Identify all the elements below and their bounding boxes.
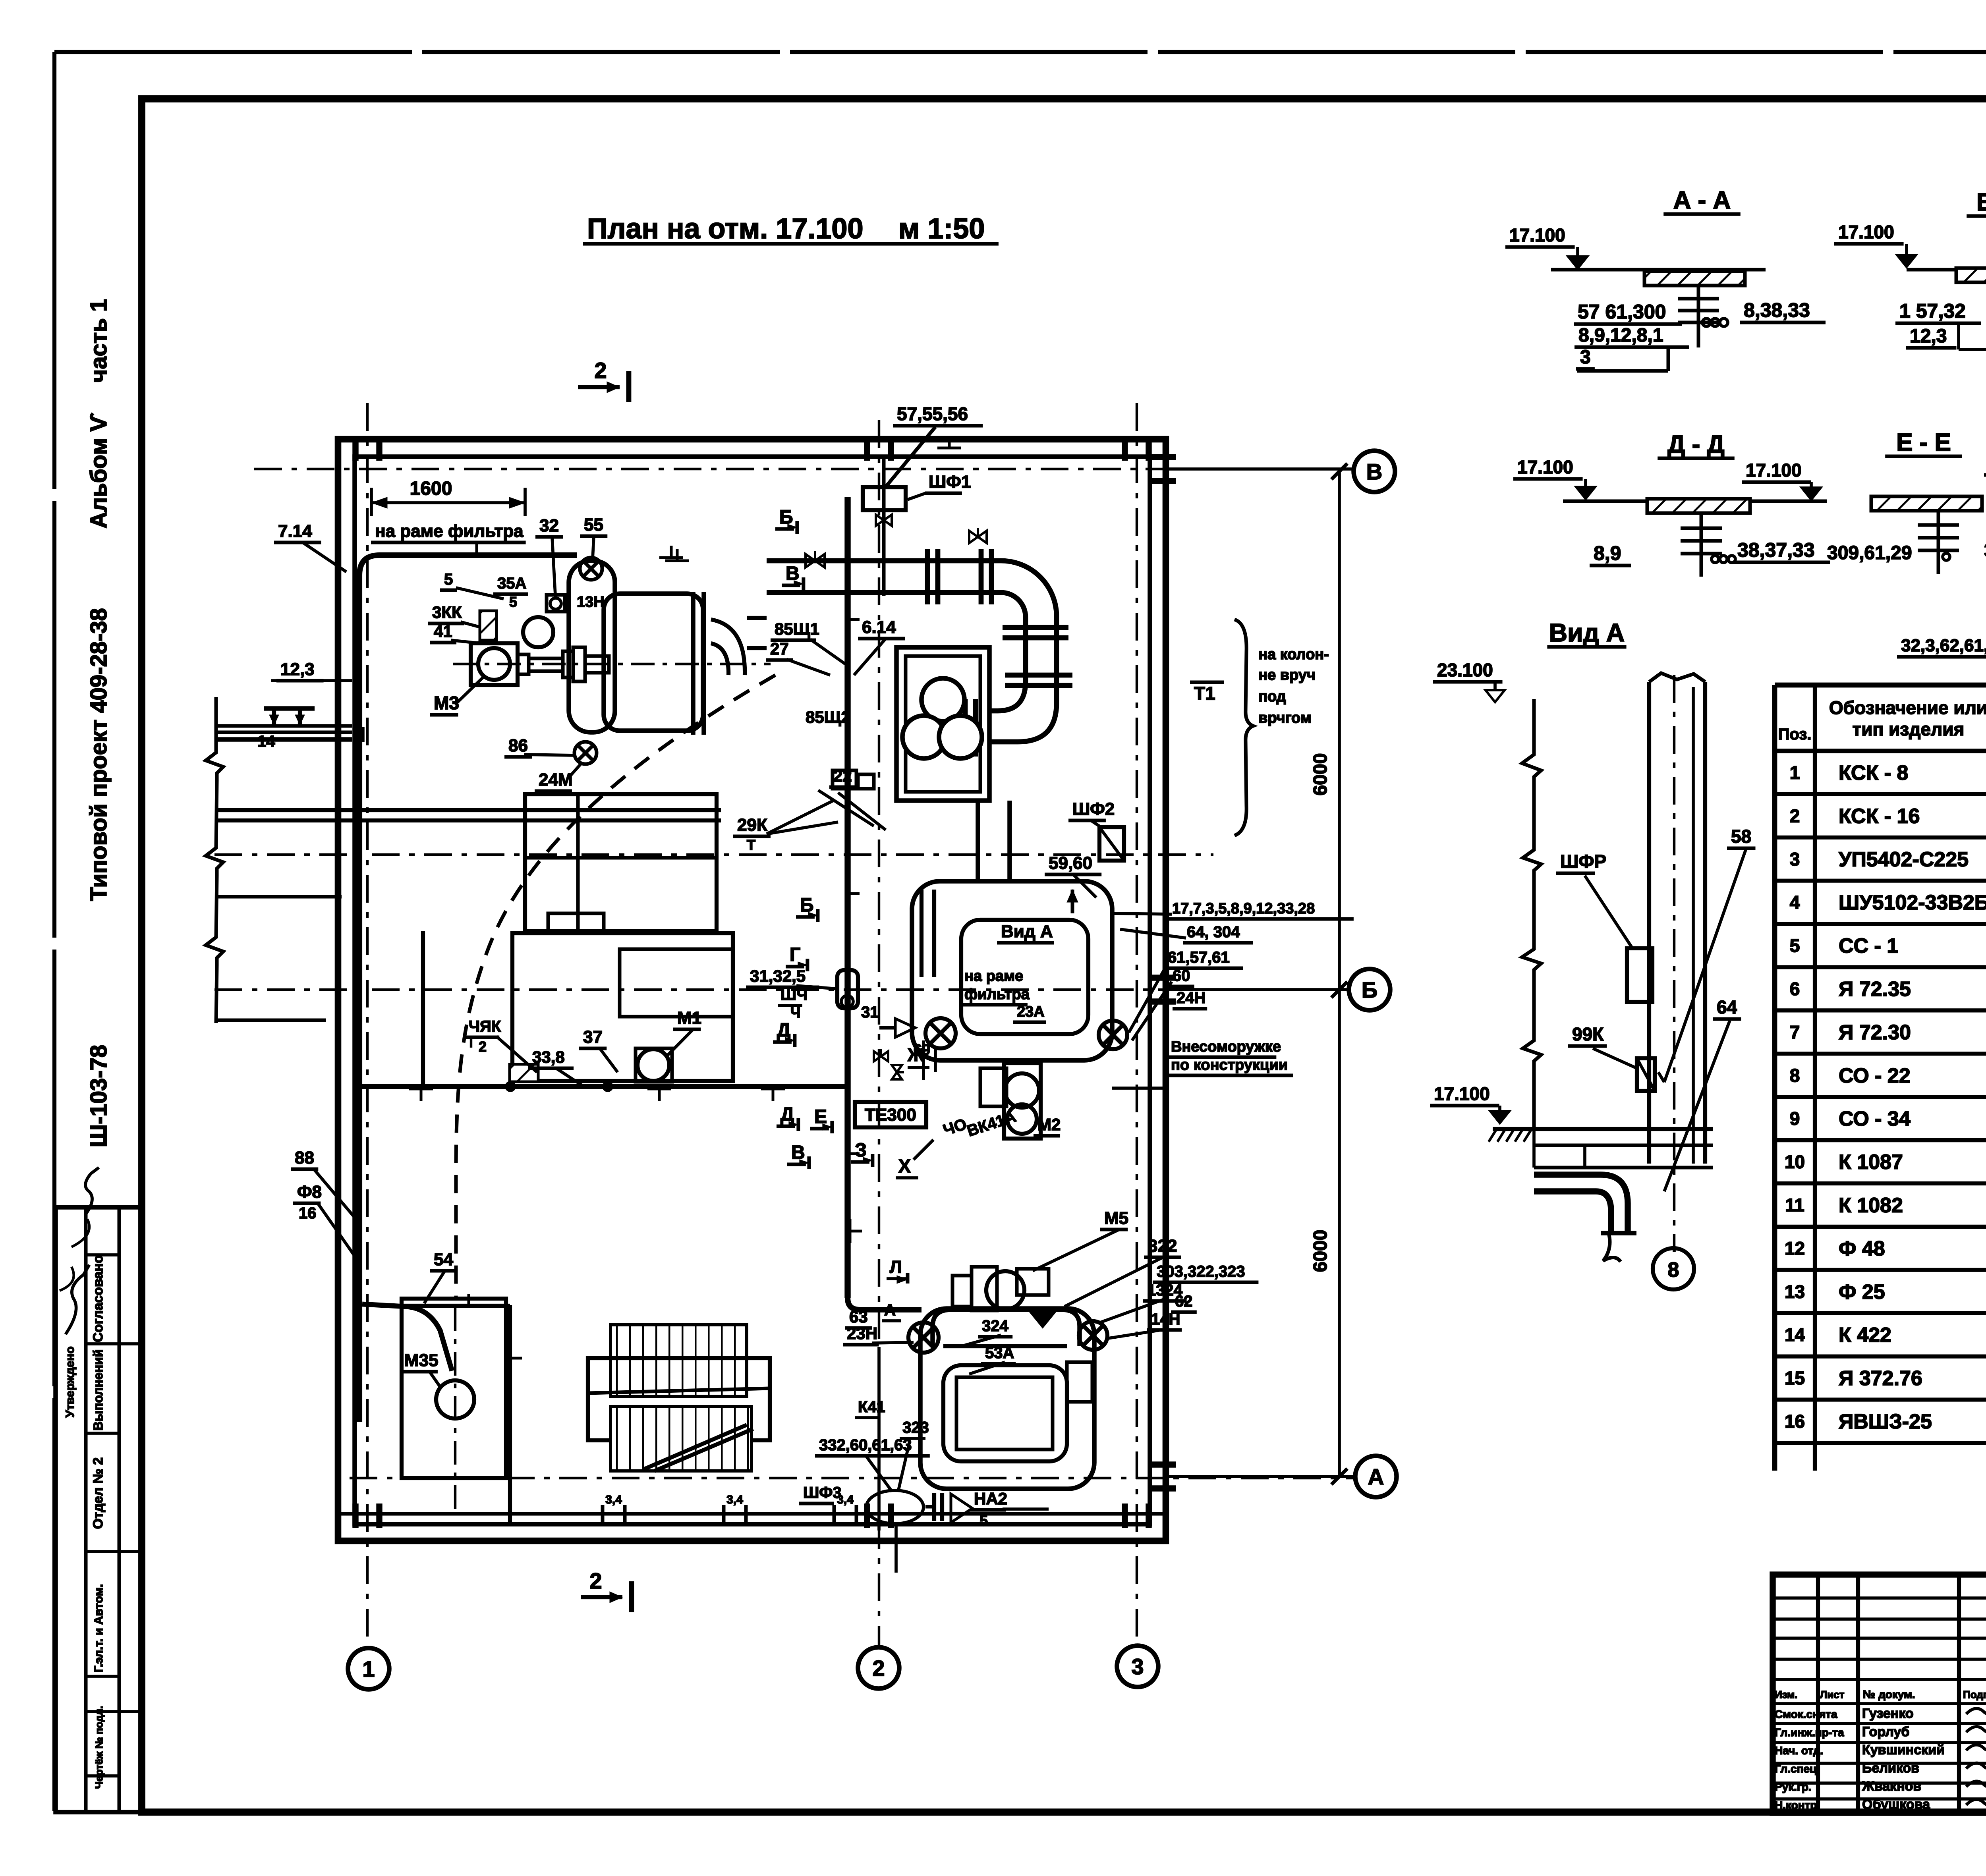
- svg-text:1: 1: [362, 1656, 375, 1681]
- svg-text:24М: 24М: [539, 770, 573, 789]
- svg-text:Поз.: Поз.: [1778, 726, 1812, 743]
- svg-text:59,60: 59,60: [1049, 853, 1092, 873]
- svg-text:Нач. отд.: Нач. отд.: [1775, 1745, 1823, 1757]
- svg-text:Е: Е: [814, 1106, 827, 1127]
- svg-text:32,3,62,61,63: 32,3,62,61,63: [1901, 636, 1986, 655]
- svg-text:Б: Б: [779, 507, 793, 528]
- svg-text:6000: 6000: [1310, 753, 1331, 796]
- svg-text:24Н: 24Н: [1177, 989, 1206, 1007]
- svg-text:31: 31: [861, 1004, 879, 1021]
- svg-text:А: А: [884, 1301, 896, 1319]
- svg-text:64, 304: 64, 304: [1187, 923, 1240, 941]
- svg-text:2: 2: [479, 1038, 487, 1055]
- svg-text:3,4: 3,4: [726, 1493, 743, 1506]
- svg-text:14: 14: [1785, 1324, 1805, 1345]
- svg-text:53А: 53А: [985, 1344, 1014, 1362]
- svg-text:ШУ5102-33В2Б: ШУ5102-33В2Б: [1839, 891, 1986, 914]
- svg-text:29К: 29К: [737, 815, 767, 835]
- svg-text:Чертёж № подл.: Чертёж № подл.: [93, 1706, 105, 1789]
- svg-text:322: 322: [1148, 1236, 1177, 1256]
- svg-text:Т1: Т1: [1194, 683, 1215, 704]
- svg-text:58: 58: [1731, 826, 1751, 847]
- svg-text:Вид А: Вид А: [1001, 922, 1053, 941]
- svg-text:СС - 1: СС - 1: [1839, 934, 1898, 957]
- svg-text:Я 372.76: Я 372.76: [1839, 1367, 1922, 1390]
- svg-text:Горлуб: Горлуб: [1862, 1724, 1909, 1739]
- svg-text:14Н: 14Н: [1151, 1310, 1180, 1328]
- svg-text:Ш-103-78: Ш-103-78: [86, 1045, 112, 1147]
- svg-text:на колон-: на колон-: [1258, 646, 1329, 663]
- svg-text:8: 8: [1790, 1065, 1800, 1086]
- svg-text:27: 27: [770, 639, 789, 658]
- svg-text:В: В: [786, 563, 800, 584]
- svg-text:врчгом: врчгом: [1258, 710, 1312, 726]
- svg-text:63: 63: [849, 1307, 868, 1326]
- svg-text:332,60,61,63: 332,60,61,63: [819, 1436, 912, 1454]
- svg-text:6000: 6000: [1310, 1230, 1331, 1272]
- svg-text:Ч: Ч: [790, 1004, 800, 1021]
- svg-text:60: 60: [1173, 967, 1190, 984]
- svg-text:57 61,300: 57 61,300: [1578, 301, 1666, 323]
- svg-text:5: 5: [509, 594, 517, 610]
- svg-text:30: 30: [1984, 540, 1986, 561]
- svg-text:17.100: 17.100: [1517, 457, 1573, 477]
- svg-text:3: 3: [1790, 849, 1800, 869]
- svg-text:Ф 48: Ф 48: [1839, 1237, 1885, 1260]
- svg-text:фильтра: фильтра: [964, 986, 1030, 1003]
- svg-text:КСК - 16: КСК - 16: [1839, 805, 1920, 828]
- svg-text:23.100: 23.100: [1437, 660, 1493, 680]
- svg-text:9: 9: [1790, 1108, 1800, 1129]
- svg-text:М1: М1: [677, 1008, 701, 1028]
- svg-text:Рук.гр.: Рук.гр.: [1775, 1781, 1812, 1793]
- svg-text:Б: Б: [1362, 977, 1377, 1002]
- svg-text:К41: К41: [858, 1398, 885, 1416]
- svg-text:8,38,33: 8,38,33: [1744, 299, 1810, 321]
- svg-text:Т: Т: [747, 837, 755, 853]
- svg-text:5: 5: [444, 571, 453, 588]
- svg-text:2: 2: [1790, 805, 1800, 826]
- svg-text:ШЧ: ШЧ: [780, 986, 808, 1004]
- svg-text:К 1082: К 1082: [1839, 1194, 1903, 1217]
- svg-text:13Н: 13Н: [577, 594, 605, 610]
- svg-text:Л: Л: [890, 1257, 902, 1277]
- svg-text:17.100: 17.100: [1838, 222, 1894, 242]
- svg-text:Д: Д: [780, 1104, 794, 1125]
- svg-text:В: В: [791, 1142, 805, 1163]
- svg-text:ТЕ300: ТЕ300: [865, 1105, 916, 1125]
- svg-text:ЧЯК: ЧЯК: [469, 1018, 501, 1035]
- svg-text:К 422: К 422: [1839, 1324, 1891, 1347]
- svg-text:85Щ1: 85Щ1: [775, 620, 819, 638]
- svg-text:13: 13: [1785, 1281, 1805, 1302]
- svg-text:М3: М3: [434, 693, 459, 713]
- svg-text:Типовой проект 409-28-38: Типовой проект 409-28-38: [86, 608, 112, 901]
- svg-text:ШФ2: ШФ2: [1072, 799, 1115, 819]
- svg-text:Д: Д: [777, 1020, 790, 1041]
- svg-text:по конструкции: по конструкции: [1171, 1057, 1288, 1073]
- svg-text:54: 54: [434, 1250, 453, 1269]
- svg-text:1600: 1600: [410, 478, 452, 499]
- svg-text:Лист: Лист: [1820, 1689, 1845, 1700]
- svg-text:План на отм. 17.100: План на отм. 17.100: [587, 213, 864, 245]
- svg-text:16: 16: [299, 1204, 317, 1222]
- svg-text:38,37,33: 38,37,33: [1737, 539, 1815, 561]
- svg-text:Подпись: Подпись: [1963, 1689, 1986, 1700]
- svg-text:Е - Е: Е - Е: [1896, 429, 1951, 456]
- svg-text:Гл.спец.: Гл.спец.: [1775, 1762, 1820, 1775]
- svg-text:324: 324: [982, 1317, 1008, 1335]
- svg-text:99К: 99К: [1572, 1024, 1604, 1044]
- svg-text:2: 2: [589, 1568, 602, 1593]
- svg-text:Я 72.30: Я 72.30: [1839, 1021, 1911, 1044]
- svg-text:35А: 35А: [497, 575, 526, 592]
- svg-text:12: 12: [1785, 1238, 1805, 1258]
- svg-text:8: 8: [1668, 1258, 1679, 1282]
- svg-text:61,57,61: 61,57,61: [1168, 949, 1230, 966]
- svg-text:Обозначение или: Обозначение или: [1829, 697, 1986, 718]
- svg-text:Изм.: Изм.: [1775, 1689, 1797, 1700]
- svg-text:Смок.снята: Смок.снята: [1775, 1708, 1837, 1720]
- svg-text:ЯВШЗ-25: ЯВШЗ-25: [1839, 1410, 1932, 1433]
- svg-text:8,9,12,8,1: 8,9,12,8,1: [1578, 325, 1663, 346]
- svg-text:33,8: 33,8: [532, 1048, 565, 1066]
- svg-text:М5: М5: [1104, 1208, 1128, 1228]
- svg-text:Отдел № 2: Отдел № 2: [91, 1457, 106, 1529]
- svg-text:Н.контр.: Н.контр.: [1775, 1799, 1820, 1811]
- svg-text:М35: М35: [404, 1351, 439, 1370]
- svg-text:Х: Х: [898, 1156, 911, 1176]
- svg-text:11: 11: [1785, 1195, 1804, 1215]
- svg-text:17.100: 17.100: [1434, 1083, 1490, 1104]
- svg-text:Д - Д: Д - Д: [1667, 431, 1724, 458]
- svg-text:323: 323: [902, 1419, 929, 1436]
- svg-text:Кувшинский: Кувшинский: [1862, 1743, 1945, 1758]
- svg-text:23Н: 23Н: [847, 1324, 877, 1343]
- svg-text:Гузенко: Гузенко: [1862, 1706, 1914, 1721]
- svg-text:Ф8: Ф8: [297, 1182, 322, 1202]
- svg-text:ШФР: ШФР: [1560, 851, 1606, 872]
- svg-text:на раме фильтра: на раме фильтра: [375, 521, 524, 541]
- svg-text:4: 4: [1790, 892, 1800, 913]
- svg-text:303,322,323: 303,322,323: [1157, 1263, 1245, 1280]
- svg-text:А: А: [1368, 1464, 1384, 1489]
- svg-text:Вид А: Вид А: [1549, 618, 1625, 647]
- svg-text:8,9: 8,9: [1594, 542, 1621, 564]
- svg-text:16: 16: [1785, 1411, 1805, 1432]
- svg-text:Б - Б: Б - Б: [1976, 189, 1986, 216]
- svg-text:тип изделия: тип изделия: [1853, 719, 1965, 739]
- svg-text:Жвакнов: Жвакнов: [1862, 1779, 1921, 1794]
- svg-text:Г.эл.т. и Автом.: Г.эл.т. и Автом.: [92, 1584, 105, 1673]
- svg-text:часть 1: часть 1: [86, 299, 112, 383]
- svg-text:3КК: 3КК: [432, 603, 462, 621]
- svg-text:Внесоморужке: Внесоморужке: [1171, 1038, 1281, 1055]
- svg-text:Беликов: Беликов: [1862, 1760, 1919, 1776]
- svg-text:Альбом Ѵ: Альбом Ѵ: [86, 413, 112, 528]
- svg-text:55: 55: [584, 515, 603, 535]
- svg-text:ШФ1: ШФ1: [929, 472, 971, 492]
- svg-text:Согласовано: Согласовано: [91, 1255, 106, 1342]
- svg-text:88: 88: [295, 1148, 314, 1168]
- svg-text:Обушкова: Обушкова: [1862, 1797, 1930, 1812]
- svg-text:62: 62: [1175, 1293, 1193, 1310]
- svg-text:6: 6: [1790, 979, 1800, 999]
- svg-text:32: 32: [539, 516, 559, 535]
- svg-text:СО - 22: СО - 22: [1839, 1064, 1911, 1087]
- svg-text:57,55,56: 57,55,56: [897, 403, 968, 424]
- svg-text:17,7,3,5,8,9,12,33,28: 17,7,3,5,8,9,12,33,28: [1172, 900, 1315, 917]
- svg-text:№ докум.: № докум.: [1863, 1688, 1915, 1700]
- svg-text:ШФ3: ШФ3: [803, 1484, 842, 1502]
- svg-text:1 57,32: 1 57,32: [1899, 300, 1966, 322]
- svg-text:3: 3: [1580, 347, 1591, 368]
- svg-text:В: В: [1366, 459, 1382, 484]
- svg-text:17.100: 17.100: [1509, 225, 1565, 245]
- svg-text:2: 2: [872, 1656, 885, 1681]
- svg-text:12,3: 12,3: [280, 660, 315, 679]
- svg-text:7: 7: [1790, 1022, 1800, 1042]
- svg-text:КСК - 8: КСК - 8: [1839, 761, 1908, 784]
- svg-text:не вруч: не вруч: [1258, 667, 1316, 683]
- svg-text:6.14: 6.14: [862, 618, 896, 637]
- svg-text:85Щ2: 85Щ2: [806, 708, 850, 726]
- svg-text:НА2: НА2: [974, 1489, 1007, 1508]
- svg-text:10: 10: [1785, 1152, 1805, 1172]
- svg-text:Утверждено: Утверждено: [64, 1346, 77, 1417]
- svg-text:3,4: 3,4: [605, 1493, 622, 1506]
- svg-text:Б: Б: [800, 895, 814, 916]
- svg-text:Гл.инж.пр-та: Гл.инж.пр-та: [1775, 1726, 1844, 1739]
- svg-text:Я 72.35: Я 72.35: [1839, 978, 1911, 1001]
- svg-text:3: 3: [1131, 1654, 1144, 1679]
- svg-text:5: 5: [1790, 935, 1800, 956]
- svg-text:15: 15: [1785, 1368, 1805, 1388]
- svg-text:7.14: 7.14: [278, 521, 312, 541]
- svg-text:Ф 25: Ф 25: [1839, 1280, 1885, 1303]
- svg-text:Выполнений: Выполнений: [91, 1349, 105, 1431]
- svg-text:3,4: 3,4: [837, 1493, 854, 1506]
- svg-text:86: 86: [508, 736, 528, 755]
- svg-text:23А: 23А: [1017, 1004, 1045, 1020]
- svg-text:31,32,5: 31,32,5: [750, 967, 806, 985]
- svg-text:309,61,29: 309,61,29: [1827, 542, 1912, 564]
- svg-text:м 1:50: м 1:50: [898, 213, 985, 245]
- svg-text:УП5402-С225: УП5402-С225: [1839, 848, 1969, 871]
- svg-text:А - А: А - А: [1673, 187, 1731, 214]
- svg-text:М2: М2: [1037, 1115, 1061, 1134]
- svg-text:К 1087: К 1087: [1839, 1151, 1903, 1174]
- svg-text:37: 37: [583, 1027, 603, 1047]
- svg-text:17.100: 17.100: [1746, 460, 1802, 481]
- svg-text:СО - 34: СО - 34: [1839, 1108, 1911, 1131]
- svg-text:12,3: 12,3: [1910, 326, 1947, 347]
- svg-text:под: под: [1258, 688, 1286, 705]
- svg-text:41: 41: [434, 622, 452, 641]
- svg-text:2: 2: [594, 358, 607, 383]
- svg-text:1: 1: [1790, 762, 1800, 783]
- svg-text:5: 5: [979, 1513, 988, 1529]
- svg-text:на раме: на раме: [964, 968, 1023, 984]
- svg-text:64: 64: [1717, 997, 1737, 1017]
